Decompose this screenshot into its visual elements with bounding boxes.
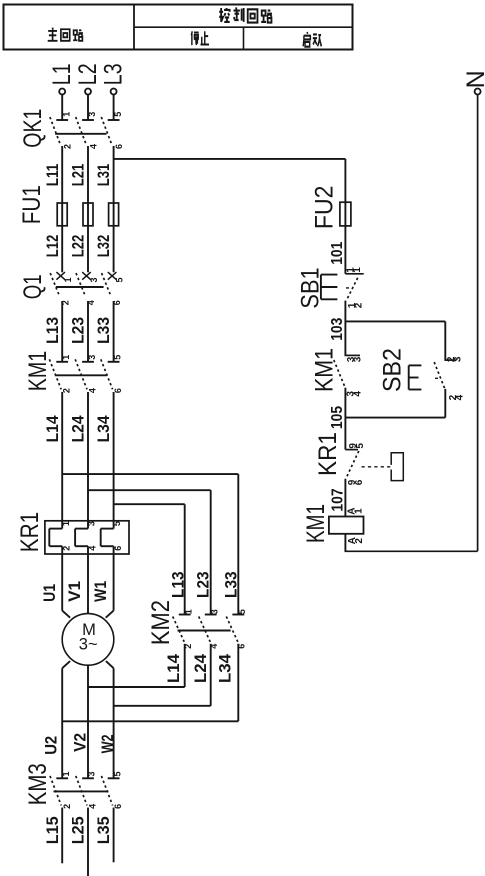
svg-text:L2: L2: [74, 63, 102, 85]
breaker Q1 (3-pole, x contacts): [50, 272, 116, 296]
svg-text:L24: L24: [70, 415, 88, 443]
node L21: [70, 164, 88, 187]
pushbutton SB1 (stop, NC): [321, 274, 364, 301]
wire W2 segment: [113, 668, 115, 778]
svg-text:L34: L34: [95, 415, 113, 443]
svg-text:3: 3: [453, 356, 464, 362]
pin 5 QK1: [113, 112, 123, 117]
wire U2 segment: [61, 668, 63, 778]
wire N riser: [477, 95, 479, 552]
pin 96 KR1 contact: [347, 479, 365, 485]
svg-text:Q1: Q1: [19, 274, 47, 299]
pin 4 KR1: [87, 546, 97, 551]
wire L13 segment phase1: [61, 301, 63, 362]
table frame (drawing header): [4, 5, 353, 50]
node L13: [44, 317, 62, 344]
pin 5 Q1: [115, 277, 125, 282]
label FU2: [311, 186, 339, 230]
wire KM2 out 2: [210, 644, 212, 706]
contactor KM1 main contacts (3-pole): [49, 359, 119, 389]
wire W1 segment: [113, 554, 115, 611]
svg-text:1: 1: [61, 521, 71, 526]
pin 11 SB1: [345, 267, 363, 273]
wire L2 terminal to QK1 pin3: [87, 95, 89, 120]
wire L25 segment: [87, 808, 89, 876]
node L11: [44, 164, 62, 187]
svg-text:5: 5: [112, 355, 122, 360]
svg-text:4: 4: [88, 144, 98, 149]
svg-text:4: 4: [455, 394, 466, 400]
wire L33 segment phase3: [113, 301, 115, 362]
svg-text:2: 2: [62, 546, 72, 551]
pin 1 Q1: [63, 277, 73, 282]
node L25: [70, 816, 88, 844]
wire control down to FU2: [344, 159, 346, 226]
pin 5 KR1: [112, 521, 122, 526]
wire L23 segment phase2: [87, 301, 89, 362]
pin 2 QK1: [63, 144, 73, 149]
svg-text:3~: 3~: [79, 635, 98, 653]
pin 2 KM3: [62, 804, 72, 809]
svg-text:V1: V1: [66, 581, 84, 602]
svg-text:3: 3: [87, 521, 97, 526]
node L34 (KM2 branch): [216, 653, 234, 683]
svg-text:KM3: KM3: [24, 763, 52, 805]
node V1: [66, 581, 84, 602]
svg-text:4: 4: [88, 804, 98, 809]
svg-text:KM1: KM1: [302, 504, 330, 543]
svg-text:L24: L24: [192, 653, 210, 683]
svg-text:FU1: FU1: [18, 185, 46, 224]
svg-text:L25: L25: [70, 816, 88, 844]
svg-text:6: 6: [113, 546, 123, 551]
wire delta link W2 to L24: [114, 705, 211, 707]
wire node 103 rail: [345, 320, 445, 322]
label KR1 (heaters): [16, 512, 44, 553]
wire bottom rail to N riser: [345, 550, 478, 552]
pin 3 QK1: [87, 112, 97, 117]
svg-text:1: 1: [61, 771, 71, 776]
node 105: [329, 406, 346, 429]
wire node 107 segment: [344, 479, 346, 517]
svg-text:W1: W1: [92, 581, 110, 602]
svg-text:5: 5: [115, 277, 125, 282]
pin 6 KM2: [237, 644, 247, 649]
svg-text:N: N: [462, 70, 485, 88]
pin 5 KM2: [237, 609, 247, 614]
wire control tap from L31: [114, 158, 346, 160]
wire motor entry left: [62, 611, 70, 618]
thermal trip symbol KR1: [362, 453, 404, 481]
label: table cell text 控制回路 (control circuit): [219, 7, 272, 22]
motor M1 (3-phase): [62, 614, 114, 666]
node L14 (KM2 branch): [165, 653, 183, 683]
svg-text:2: 2: [63, 144, 73, 149]
node L24 (KM2 branch): [192, 653, 210, 683]
wire L3 terminal to QK1 pin5: [113, 95, 115, 120]
pin 23 SB2: [446, 356, 464, 362]
svg-text:1: 1: [354, 508, 365, 514]
svg-text:SB1: SB1: [297, 267, 325, 308]
svg-text:103: 103: [329, 318, 346, 341]
wire SB2 branch to node 105: [444, 389, 446, 418]
contact KM1 auxiliary NO (self-holding): [334, 355, 360, 386]
node W2: [99, 734, 117, 753]
wire L24 segment phase2: [87, 392, 89, 521]
svg-text:1: 1: [61, 355, 71, 360]
svg-text:U1: U1: [41, 584, 59, 602]
svg-text:6: 6: [114, 144, 124, 149]
pin 4 KM3: [88, 804, 98, 809]
pin 1 KM3: [61, 771, 71, 776]
node 101: [329, 242, 346, 265]
svg-text:1: 1: [63, 277, 73, 282]
label SB1: [297, 267, 325, 308]
svg-text:5: 5: [112, 521, 122, 526]
label KM1 (coil): [302, 504, 330, 543]
wire motor exit right: [106, 661, 114, 668]
svg-text:2: 2: [354, 538, 365, 544]
label KM3: [24, 763, 52, 805]
svg-text:SB2: SB2: [379, 348, 407, 392]
pin 4 Q1: [86, 300, 96, 305]
label: table cell text 停止 (stop): [191, 31, 209, 45]
svg-text:QK1: QK1: [19, 109, 47, 148]
svg-text:KM1: KM1: [24, 351, 52, 392]
pin 1 QK1: [61, 112, 71, 117]
pin 2 KM1 main: [61, 388, 71, 393]
node L33 (KM2 branch): [222, 571, 240, 598]
svg-text:3: 3: [87, 771, 97, 776]
wire KM2 branch 2 down: [210, 490, 212, 614]
wire KM2 branch 3 down: [237, 474, 239, 614]
terminal N (neutral): [462, 70, 485, 94]
contactor KM2 contacts (3-pole): [173, 615, 245, 642]
node L33: [95, 317, 113, 344]
wire L31 segment phase3: [113, 146, 115, 272]
node L24: [70, 415, 88, 443]
label KM1 (aux contact): [311, 348, 339, 392]
node 103: [329, 318, 346, 341]
pin 4 KM2: [209, 644, 219, 649]
wire V2 segment: [87, 665, 89, 778]
node L23: [70, 317, 88, 344]
pin 3 KM2: [209, 609, 219, 614]
label QK1: [19, 109, 47, 148]
svg-text:1: 1: [61, 112, 71, 117]
svg-text:FU2: FU2: [311, 186, 339, 230]
wire tap phase3 to KM2 branch (L13 side): [114, 503, 185, 505]
svg-text:6: 6: [113, 804, 123, 809]
svg-text:L12: L12: [44, 235, 62, 258]
fuse FU1 (3x): [57, 203, 118, 226]
label KM2: [147, 600, 175, 645]
svg-text:5: 5: [355, 443, 366, 449]
pin 6 KR1: [113, 546, 123, 551]
node L31: [95, 164, 113, 187]
svg-text:L14: L14: [165, 653, 183, 683]
svg-text:5: 5: [237, 609, 247, 614]
pin 12 SB1: [347, 302, 365, 308]
node V2: [71, 733, 89, 752]
pin 1 KR1: [61, 521, 71, 526]
label Q1: [19, 274, 47, 299]
node 107: [329, 488, 346, 511]
wire U1 segment: [61, 554, 63, 611]
wire L11 segment phase1: [61, 146, 63, 272]
svg-text:5: 5: [113, 112, 123, 117]
wire tap phase1 to KM2 branch (L33 side): [62, 473, 238, 475]
svg-text:1: 1: [183, 609, 193, 614]
svg-text:105: 105: [329, 406, 346, 429]
pushbutton SB2 (start, NO): [409, 360, 457, 389]
svg-text:U2: U2: [43, 736, 61, 755]
pin 3 KM1 main: [87, 355, 97, 360]
svg-text:6: 6: [354, 479, 365, 485]
wire L35 segment: [113, 808, 115, 863]
svg-text:L33: L33: [95, 317, 113, 344]
svg-text:W2: W2: [99, 734, 117, 753]
switch QK1 (3-pole knife switch): [50, 117, 120, 144]
terminal L1 (supply phase): [48, 63, 76, 94]
wire V1 segment: [87, 554, 89, 614]
wire KM2 branch 1 down: [184, 504, 186, 614]
svg-text:L23: L23: [195, 571, 213, 598]
pin 3 KR1: [87, 521, 97, 526]
node W1: [92, 581, 110, 602]
svg-text:L21: L21: [70, 164, 88, 187]
svg-text:3: 3: [89, 277, 99, 282]
node L23 (KM2 branch): [195, 571, 213, 598]
pin 2 KM2: [183, 644, 193, 649]
wire delta link V2 to L14: [88, 686, 185, 688]
svg-text:4: 4: [353, 391, 364, 397]
pin 3 Q1: [89, 277, 99, 282]
svg-text:3: 3: [87, 112, 97, 117]
svg-text:3: 3: [209, 609, 219, 614]
svg-text:KR1: KR1: [314, 432, 342, 476]
label: table cell text 主回路 (main circuit): [48, 28, 83, 41]
wire KM2 out 3: [237, 644, 239, 722]
node L35: [95, 816, 113, 844]
svg-text:2: 2: [354, 302, 365, 308]
wire SB2 branch down: [444, 321, 446, 360]
contactor KM3 contacts (3-pole): [50, 776, 120, 806]
svg-text:L3: L3: [99, 63, 127, 85]
wire delta link U2 to L34: [62, 720, 238, 722]
wire L15 segment: [61, 808, 63, 864]
svg-text:L22: L22: [70, 235, 88, 258]
svg-text:107: 107: [329, 488, 346, 511]
svg-text:L13: L13: [169, 571, 187, 598]
wire L34 segment phase3: [113, 392, 115, 521]
wire L21 segment phase2: [87, 146, 89, 272]
svg-text:KR1: KR1: [16, 512, 44, 553]
wire L14 segment phase1: [61, 392, 63, 521]
wire motor exit left: [62, 661, 70, 668]
svg-text:L35: L35: [95, 816, 113, 844]
svg-text:L13: L13: [44, 317, 62, 344]
svg-text:L1: L1: [48, 63, 76, 85]
coil KM1: [329, 517, 364, 534]
svg-text:3: 3: [353, 356, 364, 362]
pin 4 QK1: [88, 144, 98, 149]
svg-text:L33: L33: [222, 571, 240, 598]
node L12: [44, 235, 62, 258]
svg-text:4: 4: [87, 546, 97, 551]
pin 1 KM1 main: [61, 355, 71, 360]
pin 2 Q1: [60, 300, 70, 305]
wire coil to bottom rail: [344, 534, 346, 552]
pin 1 KM2: [183, 609, 193, 614]
pin 34 KM1 aux: [346, 391, 364, 397]
pin 24 SB2: [448, 394, 466, 400]
svg-text:L34: L34: [216, 653, 234, 683]
pin 4 KM1 main: [87, 388, 97, 393]
label: table cell text 启动 (start): [303, 32, 321, 47]
node L34: [95, 415, 113, 443]
pin 2 KR1: [62, 546, 72, 551]
node U1: [41, 584, 59, 602]
svg-text:101: 101: [329, 242, 346, 265]
label KM1 (main contacts): [24, 351, 52, 392]
pin 5 KM1 main: [112, 355, 122, 360]
svg-text:2: 2: [62, 804, 72, 809]
svg-text:1: 1: [352, 267, 363, 273]
terminal L2 (supply phase): [74, 63, 102, 94]
svg-text:L11: L11: [44, 164, 62, 187]
pin 5 KM3: [112, 771, 122, 776]
pin 6 KM1 main: [113, 388, 123, 393]
pin 33 KM1 aux: [346, 356, 364, 362]
svg-text:L14: L14: [44, 415, 62, 443]
wire motor entry right: [106, 611, 114, 618]
wire node 105 segment left: [344, 388, 346, 418]
svg-text:5: 5: [112, 771, 122, 776]
terminal L3 (supply phase): [99, 63, 127, 94]
svg-text:L15: L15: [44, 816, 62, 844]
svg-text:KM1: KM1: [311, 348, 339, 392]
svg-text:V2: V2: [71, 733, 89, 752]
contact KR1 NC (thermal trip): [345, 418, 358, 479]
node L32: [95, 235, 113, 258]
node L22: [70, 235, 88, 258]
pin 95 KR1 contact: [348, 443, 366, 449]
node L15: [44, 816, 62, 844]
pin A2 KM1 coil: [347, 537, 365, 544]
svg-text:L23: L23: [70, 317, 88, 344]
wire node 105 rail: [345, 417, 445, 419]
svg-text:L32: L32: [95, 235, 113, 258]
node L13 (KM2 branch): [169, 571, 187, 598]
pin 6 KM3: [113, 804, 123, 809]
svg-text:KM2: KM2: [147, 600, 175, 645]
wire node 101 segment: [344, 226, 346, 274]
fuse FU2: [340, 202, 351, 226]
pin 6 QK1: [114, 144, 124, 149]
label KR1 (NC contact): [314, 432, 342, 476]
node U2: [43, 736, 61, 755]
thermal relay KR1 heater elements: [45, 521, 129, 554]
wire tap phase2 to KM2 branch (L23 side): [88, 489, 211, 491]
wire node 103 segment: [344, 301, 346, 356]
pin 3 KM3: [87, 771, 97, 776]
svg-text:L31: L31: [95, 164, 113, 187]
pin 6 Q1: [112, 300, 122, 305]
node L14: [44, 415, 62, 443]
pin A1 KM1 coil: [347, 507, 365, 514]
label SB2: [379, 348, 407, 392]
wire KM2 out 1: [184, 644, 186, 687]
wire L1 terminal to QK1 pin1: [61, 95, 63, 120]
svg-text:3: 3: [87, 355, 97, 360]
label FU1: [18, 185, 46, 224]
